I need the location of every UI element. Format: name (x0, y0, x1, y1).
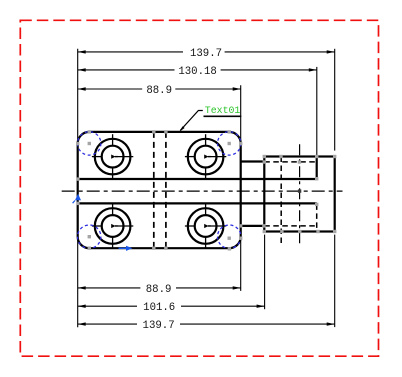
svg-text:101.6: 101.6 (143, 302, 175, 314)
svg-text:88.9: 88.9 (146, 85, 172, 97)
svg-text:130.18: 130.18 (178, 66, 216, 78)
svg-text:139.7: 139.7 (190, 48, 222, 60)
svg-text:88.9: 88.9 (146, 284, 172, 296)
svg-text:139.7: 139.7 (143, 320, 175, 332)
svg-text:Text01: Text01 (205, 105, 241, 116)
